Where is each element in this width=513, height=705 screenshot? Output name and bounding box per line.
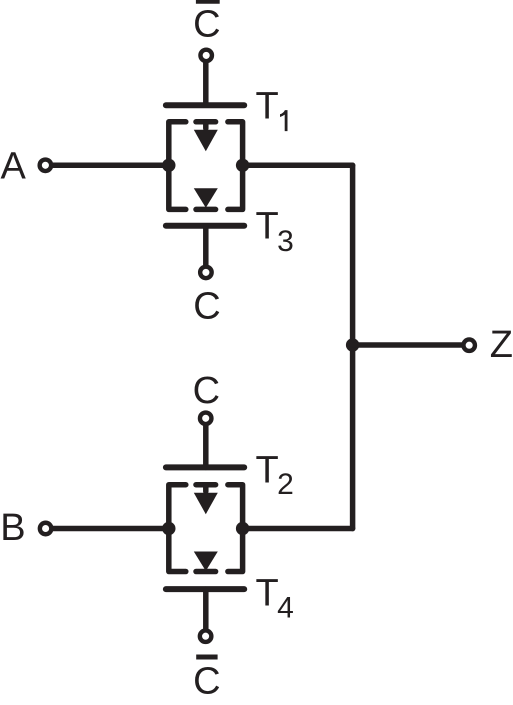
- svg-text:A: A: [1, 146, 27, 188]
- svg-text:C: C: [193, 661, 220, 703]
- input terminal A: [40, 160, 52, 172]
- svg-text:T: T: [256, 206, 279, 248]
- svg-text:3: 3: [277, 225, 294, 258]
- TG1 body top dash: [196, 119, 216, 125]
- TG2 NMOS arrow (T4): [194, 552, 218, 572]
- wire B to TG2: [53, 526, 169, 532]
- label T3: [256, 206, 294, 259]
- svg-text:2: 2: [277, 468, 294, 501]
- svg-text:T: T: [256, 86, 279, 128]
- TG2 body top dash: [196, 482, 216, 488]
- output bus vertical wire: [350, 165, 356, 528]
- terminal C (T3 gate): [200, 267, 212, 279]
- TG2 body right bracket (dashed box): [228, 485, 243, 572]
- TG2 body bottom dash: [196, 569, 216, 575]
- gate bar T1: [166, 102, 244, 108]
- gate bar T2: [166, 464, 244, 470]
- svg-text:C: C: [193, 4, 220, 46]
- svg-text:T: T: [256, 450, 279, 492]
- junction node on bus (Z tap): [346, 338, 359, 351]
- wire TG1 output to bus: [243, 163, 353, 169]
- svg-text:C: C: [193, 286, 220, 328]
- net label C-bar (gate of T1): [193, 1, 220, 45]
- svg-text:C: C: [193, 370, 220, 412]
- gate wire T2: [203, 425, 209, 467]
- wire A to TG1: [53, 163, 169, 169]
- gate wire T3: [203, 226, 209, 266]
- junction dot TG1 right: [236, 159, 249, 172]
- gate bar T4: [166, 586, 244, 592]
- TG2 PMOS arrow (T2): [194, 485, 218, 515]
- terminal C-bar (T1 gate): [200, 50, 212, 62]
- TG1 NMOS arrow (T3): [194, 188, 218, 208]
- label T4: [256, 572, 294, 624]
- gate wire T4: [203, 589, 209, 630]
- TG1 body left bracket (dashed box): [169, 122, 186, 210]
- input terminal B: [40, 523, 52, 535]
- wire bus to output Z: [353, 342, 463, 348]
- TG1 PMOS arrow (T1): [194, 122, 218, 152]
- terminal C (T2 gate): [200, 413, 212, 425]
- TG1 body bottom dash: [196, 207, 216, 213]
- wire TG2 output to bus: [243, 526, 353, 532]
- gate bar T3: [166, 223, 244, 229]
- svg-text:4: 4: [277, 592, 294, 625]
- output terminal Z: [463, 339, 475, 351]
- svg-text:T: T: [256, 572, 279, 614]
- junction dot TG2 right: [236, 522, 249, 535]
- gate wire T1: [203, 62, 209, 105]
- terminal C-bar (T4 gate): [200, 630, 212, 642]
- TG1 body right bracket (dashed box): [228, 122, 243, 210]
- svg-text:Z: Z: [490, 324, 513, 366]
- junction dot TG2 left: [162, 522, 175, 535]
- junction dot TG1 left: [162, 159, 175, 172]
- label T2: [256, 450, 294, 502]
- TG2 body left bracket (dashed box): [169, 485, 186, 572]
- net label C-bar (gate of T4): [193, 657, 220, 703]
- svg-text:B: B: [0, 507, 25, 549]
- label T1: [256, 86, 288, 132]
